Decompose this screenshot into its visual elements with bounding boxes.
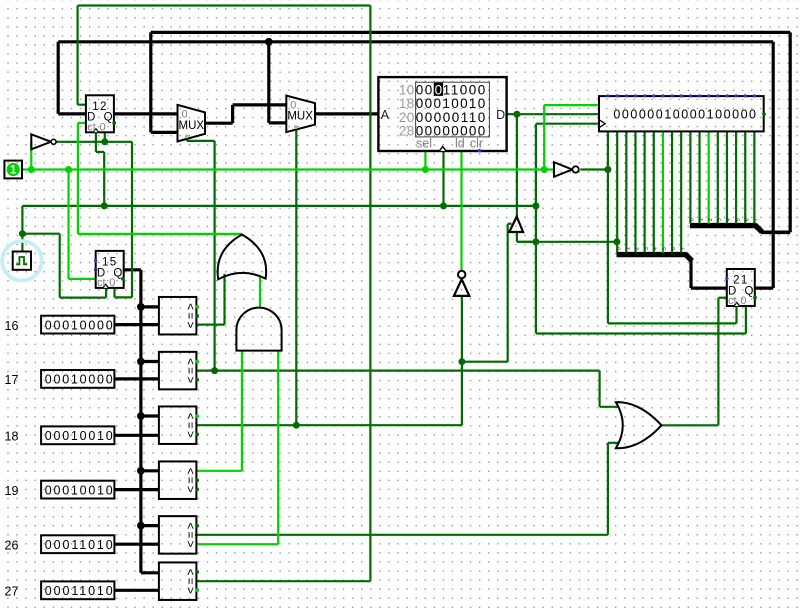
- and gate AND1: [236, 308, 281, 351]
- svg-text:D: D: [496, 108, 505, 122]
- svg-text:1: 1: [699, 218, 705, 221]
- inverter G2: [454, 271, 469, 296]
- clock component CLK1: [13, 252, 31, 270]
- svg-text:00010010: 00010010: [45, 483, 113, 497]
- wire bus into MUX1 B input: [151, 131, 178, 134]
- svg-text:<: <: [184, 321, 198, 328]
- wire comparator18 eq output: [196, 424, 462, 426]
- junction dark net: [458, 358, 465, 365]
- junction dark net: [532, 202, 539, 209]
- svg-text:0: 0: [99, 122, 105, 134]
- wire bus comparator A distribution vertical: [139, 270, 142, 573]
- junction dark net: [604, 166, 611, 173]
- svg-text:3: 3: [717, 218, 723, 221]
- wire comp18 net vertical riser: [461, 362, 463, 426]
- carry pin counter15: [121, 277, 125, 281]
- wire bus splitter S2 trunk horizontal: [761, 231, 790, 235]
- wire OR2 upper input stub: [600, 406, 619, 408]
- wire net ONE rail from input pin: [22, 168, 554, 170]
- wire net comp27eq left vertical to counter12 LD: [76, 6, 78, 105]
- wire bus MUX1 out: [205, 122, 233, 125]
- wire buffer G1 input horizontal: [517, 241, 536, 243]
- wire bus counter21 Q vertical: [772, 42, 775, 288]
- wire MUX1 select stub: [186, 138, 188, 141]
- junction dark net: [440, 202, 447, 209]
- wire bus comparator A stub: [141, 414, 159, 417]
- svg-text:0: 0: [740, 295, 746, 307]
- floating LD pin counter21: [725, 277, 728, 280]
- svg-text:00011010: 00011010: [45, 584, 113, 598]
- input pin P16 value 00010000: [5, 316, 115, 334]
- wire clock net to register clock: [536, 123, 599, 125]
- wire comp18 net vertical at buffer: [507, 224, 509, 362]
- splitter S2 leg labels: [690, 218, 760, 221]
- serial out pin register: [762, 112, 766, 116]
- wire counter21 CLR vertical: [745, 306, 747, 334]
- input pin P17 value 00010000: [5, 370, 115, 388]
- wire bus splitter S1 into counter21 D: [691, 287, 727, 290]
- carry pin counter12: [112, 121, 116, 125]
- wire bus MUX1B vertical: [149, 32, 152, 132]
- or gate OR2: [616, 402, 662, 448]
- comparator CMP18: [159, 406, 198, 444]
- wire inverter U1 output: [57, 141, 133, 143]
- junction ONE rail: [541, 166, 548, 173]
- svg-text:2: 2: [708, 218, 714, 221]
- wire RAM clock vertical: [442, 151, 444, 206]
- input pin P27 value 00011010: [5, 581, 115, 599]
- svg-text:00010010: 00010010: [45, 429, 113, 443]
- junction comparator A bus: [137, 412, 145, 420]
- svg-text:ld: ld: [455, 136, 465, 150]
- wire bus splitter S1 to counter21 D vertical: [689, 260, 692, 288]
- inverter U1: [31, 134, 56, 149]
- svg-text:7: 7: [754, 218, 760, 221]
- junction comparator A bus: [137, 522, 145, 530]
- wire clock net left vertical: [21, 206, 23, 234]
- junction dark net: [513, 111, 520, 118]
- wire clock rail horizontal: [22, 205, 536, 207]
- svg-text:0: 0: [109, 277, 115, 289]
- comparator CMP19: [159, 461, 198, 499]
- svg-text:4: 4: [653, 247, 659, 250]
- svg-text:=: =: [184, 578, 198, 585]
- wire net comp27eq long vertical: [369, 6, 371, 582]
- junction comparator A bus: [137, 358, 145, 366]
- input pin P26 value 00011010: [5, 535, 115, 553]
- wire MUX1 select vertical: [214, 141, 216, 371]
- svg-text:MUX: MUX: [287, 111, 313, 123]
- wire register bit0 lower vertical: [607, 170, 609, 324]
- wire register output bit12 to splitter S2: [717, 131, 719, 223]
- wire comparator26 eq output to OR2: [195, 534, 608, 536]
- wire OR2 upper input vertical: [598, 371, 600, 407]
- svg-text:=: =: [184, 422, 198, 429]
- wire clock net to counter21 CLR horizontal: [536, 332, 746, 334]
- wire OR1 output tip stub: [241, 234, 243, 236]
- wire MUX2 select vertical: [295, 129, 297, 425]
- svg-text:00000010000100000: 00000010000100000: [613, 108, 756, 122]
- svg-text:17: 17: [5, 373, 19, 387]
- wire bus comparator A stub: [141, 305, 159, 308]
- counter C15 value 15: [96, 251, 124, 289]
- wire bus counter21-Q horizontal rail: [58, 40, 773, 43]
- junction dark net: [19, 230, 26, 237]
- svg-text:16: 16: [5, 319, 19, 333]
- wire register output bit9 to splitter S2: [689, 131, 691, 223]
- multiplexer MUX1: [178, 105, 206, 141]
- wire counter12 clock jog down: [95, 132, 97, 152]
- junction dark net: [101, 202, 108, 209]
- wire clock net splitter leg junction horizontal: [517, 241, 617, 243]
- wire U1 net to counter15 CLR horizontal: [115, 296, 133, 298]
- wire bus into comparator27 A: [141, 571, 159, 574]
- junction dark net: [613, 238, 620, 245]
- svg-text:>: >: [184, 468, 198, 475]
- wire comparator17 eq output rail: [196, 370, 599, 372]
- svg-text:3: 3: [644, 247, 650, 250]
- floating clr pin RAM: [478, 149, 481, 152]
- splitter S2 bar: [690, 223, 756, 228]
- wire net comp27eq top rail: [78, 4, 371, 6]
- buffer G1: [509, 217, 523, 232]
- floating D pin counter15: [94, 268, 97, 271]
- svg-text:=: =: [184, 367, 198, 374]
- wire bus counter15 Q out: [123, 268, 141, 271]
- junction dark net: [532, 238, 539, 245]
- wire register output bit3 to splitter S1: [634, 131, 636, 252]
- wire NOT2 output: [580, 168, 608, 170]
- svg-text:ct: ct: [97, 277, 106, 289]
- svg-text:1: 1: [626, 247, 632, 250]
- wire comparator27 eq output: [196, 580, 370, 582]
- counter C12 value 12: [86, 95, 114, 133]
- svg-text:sel: sel: [416, 136, 432, 150]
- svg-text:4: 4: [726, 218, 732, 221]
- shift register SR1 top pins: [599, 94, 764, 131]
- svg-text:0: 0: [616, 247, 622, 250]
- svg-text:A: A: [381, 108, 390, 122]
- wire AND1 output to OR1: [259, 277, 261, 308]
- or gate OR1: [218, 235, 267, 280]
- wire into counter15 CT: [69, 278, 96, 280]
- svg-text:7: 7: [680, 247, 686, 250]
- wire bus counter21 Q stub: [755, 287, 773, 290]
- wire comp18 net stub at buffer: [508, 223, 512, 225]
- wire register output bit5 to splitter S1: [653, 131, 655, 252]
- wire counter21 clock vertical: [735, 306, 737, 323]
- wire NOT G2 output to RAM ld: [460, 151, 462, 270]
- wire bus counter12 Q to MUX1 A: [114, 112, 178, 115]
- wire comparator26 lt output: [196, 543, 278, 545]
- comparator CMP26: [159, 516, 198, 554]
- wire register output bit7 to splitter S1: [671, 131, 673, 252]
- comparator CMP17: [159, 352, 198, 390]
- wire ONE to counter15 CT vertical: [67, 170, 69, 279]
- splitter S2 slant: [755, 225, 762, 232]
- wire MUX1 select horizontal: [187, 140, 215, 142]
- wire clock net to counter15 clock: [60, 297, 106, 299]
- svg-text:6: 6: [744, 218, 750, 221]
- wire OR2 output vertical: [717, 298, 719, 426]
- wire bus into MUX2 B input: [269, 121, 287, 124]
- junction dark net: [293, 422, 300, 429]
- wire into counter12 LD: [78, 104, 86, 106]
- wire bus input pin to comparator B: [114, 543, 158, 546]
- svg-text:ct: ct: [728, 295, 737, 307]
- wire OR1 net vertical: [77, 123, 79, 234]
- wire register bit0 upper: [607, 131, 609, 169]
- wire clock component output stub: [21, 234, 23, 252]
- wire buffer G1 output vertical: [516, 114, 518, 217]
- wire bus input pin to comparator B: [114, 589, 158, 592]
- wire register output bit16 to splitter S2: [753, 131, 755, 223]
- wire bus comparator A stub: [141, 360, 159, 363]
- svg-text:27: 27: [5, 585, 19, 599]
- wire comparator16 lt output: [196, 324, 224, 326]
- comparator CMP16: [159, 297, 198, 335]
- wire bus input pin to comparator B: [114, 434, 158, 437]
- junction comparator A bus: [137, 303, 145, 311]
- svg-text:clr: clr: [470, 136, 483, 150]
- wire RAM D to register: [507, 113, 599, 115]
- svg-text:MUX: MUX: [179, 120, 205, 132]
- carry pin counter21: [753, 296, 757, 300]
- wire clock net vertical x59: [59, 234, 61, 298]
- svg-text:0: 0: [181, 109, 187, 121]
- svg-text:1: 1: [10, 165, 17, 177]
- wire inverter U1 input vertical: [30, 142, 32, 170]
- wire AND1 left input vertical: [241, 351, 243, 471]
- wire clock net vertical x536: [535, 124, 537, 334]
- wire U1 net vertical: [131, 142, 133, 298]
- svg-text:0: 0: [435, 83, 443, 98]
- wire OR1 net horizontal: [78, 233, 242, 235]
- wire ONE into register input: [544, 104, 599, 106]
- svg-text:00010000: 00010000: [45, 373, 113, 387]
- junction counter21Q bus / MUX2B: [265, 38, 273, 46]
- wire register output bit10 to splitter S2: [698, 131, 700, 223]
- splitter S1 leg labels: [616, 247, 686, 250]
- multiplexer MUX2: [286, 96, 315, 133]
- wire OR2 output: [662, 424, 719, 426]
- floating LD pin counter15: [94, 259, 97, 262]
- junction ONE rail: [65, 166, 72, 173]
- svg-text:ct: ct: [87, 122, 96, 134]
- wire register output bit11 to splitter S2: [708, 131, 710, 223]
- wire bus splitter S2 to MUX1 vertical: [789, 32, 792, 232]
- junction dark net: [101, 138, 108, 145]
- wire counter12 clock jog vertical: [103, 152, 105, 206]
- inverter U2: [554, 162, 579, 177]
- wire NOT gate G2 input vertical: [461, 296, 463, 362]
- wire OR2 lower input stub: [608, 442, 619, 444]
- wire register output bit15 to splitter S2: [744, 131, 746, 223]
- wire bus into MUX2 A input: [233, 103, 287, 106]
- svg-text:0: 0: [290, 99, 296, 111]
- wire RAM sel vertical: [424, 151, 426, 170]
- comparator CMP27: [159, 562, 198, 600]
- svg-text:6: 6: [671, 247, 677, 250]
- svg-text:5: 5: [735, 218, 741, 221]
- junction ONE rail: [422, 166, 429, 173]
- wire clock net to counter15 horizontal: [22, 233, 59, 235]
- wire counter12 CLR vertical: [104, 132, 106, 141]
- RAM M1 cursor cell: [378, 77, 506, 151]
- wire bus MUX1 out vertical: [231, 105, 234, 123]
- svg-text:18: 18: [5, 430, 19, 444]
- input pin P18 value 00010010: [5, 426, 115, 444]
- svg-text:19: 19: [5, 484, 19, 498]
- wire register output bit8 to splitter S1: [680, 131, 682, 252]
- wire OR1 out into counter12 CT: [78, 122, 86, 124]
- wire register output bit4 to splitter S1: [644, 131, 646, 252]
- input pin P1 value 1: [4, 161, 22, 179]
- wire register output bit13 to splitter S2: [726, 131, 728, 223]
- wire comp18 net horizontal: [462, 361, 508, 363]
- wire buffer G1 input vertical: [516, 232, 518, 242]
- wire into counter21 CT: [718, 297, 726, 299]
- splitter S1 bar: [617, 252, 687, 257]
- counter C21 value 21: [727, 269, 755, 307]
- svg-text:<: <: [184, 540, 198, 547]
- wire bit0 net to counter21 clock horizontal: [608, 322, 737, 324]
- wire bus to counter12 D vertical: [57, 42, 60, 114]
- wire bus into counter12 D input: [58, 112, 86, 115]
- wire bus input pin to comparator B: [114, 488, 158, 491]
- wire comp16 to OR1 input vertical: [223, 274, 225, 325]
- svg-text:26: 26: [5, 538, 19, 552]
- wire bus to MUX2 B vertical: [267, 42, 270, 123]
- wire bus MUX2 out to RAM A: [315, 112, 378, 115]
- splitter S1 slant: [685, 254, 692, 261]
- svg-text:0: 0: [690, 218, 696, 221]
- input pin P19 value 00010010: [5, 481, 115, 499]
- junction ONE rail: [28, 166, 35, 173]
- wire bus input pin to comparator B: [114, 377, 158, 380]
- wire AND1 right input vertical: [277, 351, 279, 544]
- wire OR2 lower input vertical: [607, 443, 609, 535]
- wire register output bit6 to splitter S1: [662, 131, 664, 252]
- svg-text:5: 5: [662, 247, 668, 250]
- wire bus comparator A stub: [141, 469, 159, 472]
- svg-text:00011010: 00011010: [45, 538, 113, 552]
- svg-text:28: 28: [399, 123, 414, 138]
- wire bus splitter2-to-MUX1B top segment: [151, 31, 790, 34]
- wire bus comparator A stub: [141, 524, 159, 527]
- wire ONE to register vertical: [543, 105, 545, 169]
- wire counter15 CLR vertical: [113, 288, 115, 298]
- svg-text:00010000: 00010000: [45, 318, 113, 332]
- wire register output bit2 to splitter S1: [625, 131, 627, 252]
- wire bus input pin to comparator B: [114, 323, 158, 326]
- junction dark net: [211, 367, 218, 374]
- wire counter15 clock vertical: [105, 288, 107, 298]
- svg-text:=: =: [184, 531, 198, 538]
- junction comparator A bus: [137, 467, 145, 475]
- clock CLK1 selection halo: [2, 241, 42, 281]
- svg-text:2: 2: [635, 247, 641, 250]
- wire register output bit14 to splitter S2: [735, 131, 737, 223]
- wire comparator19 gt output: [196, 470, 242, 472]
- wire register output bit1 to splitter S1: [616, 131, 618, 252]
- wire counter12 clock jog across: [96, 151, 104, 153]
